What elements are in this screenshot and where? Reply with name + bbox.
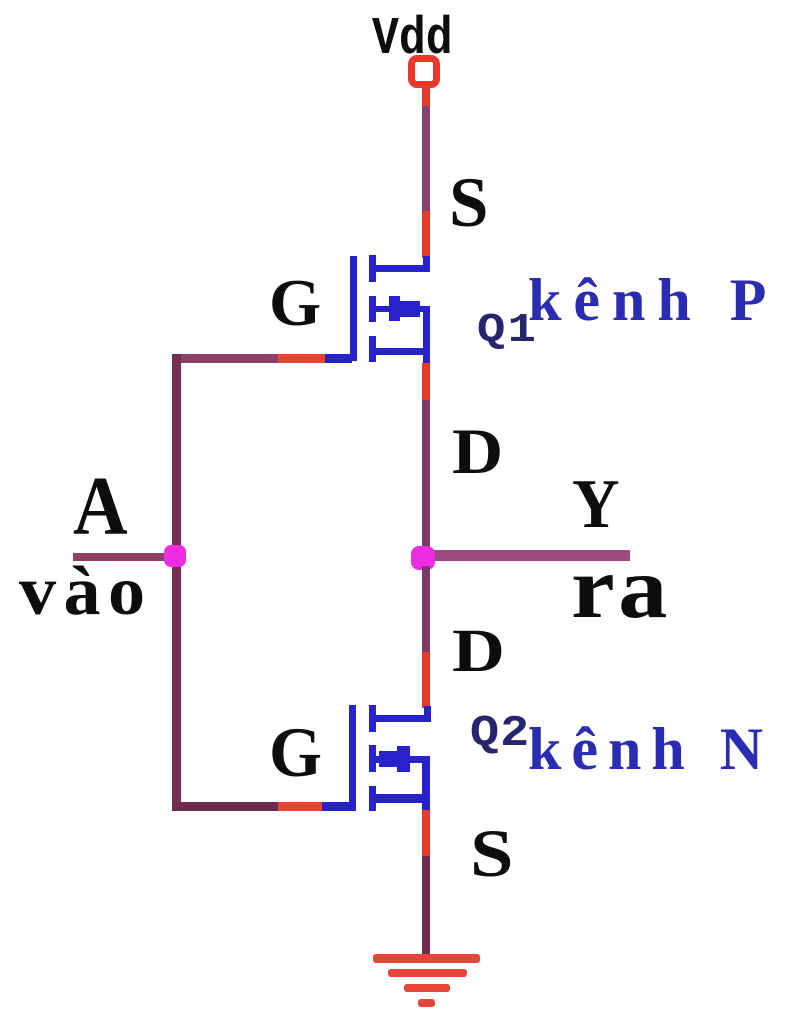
drain contact (372, 348, 429, 355)
label A (73, 465, 128, 549)
label D (Q1 drain) (452, 420, 503, 485)
channel bars (369, 255, 376, 282)
source contact (372, 265, 429, 272)
label Q2 (470, 712, 530, 756)
transistor Q1 (PMOS) (0, 0, 1, 1)
wire Q2 source red (422, 810, 430, 858)
channel bars (369, 705, 376, 732)
transistor Q2 (NMOS) (0, 0, 1, 1)
label S (Q1 source) (449, 168, 489, 239)
wire Vdd stem red (422, 87, 430, 108)
ground (0, 0, 1, 1)
label Y (572, 470, 620, 540)
gate wire bottom horizontal (173, 802, 278, 811)
label Q1 (477, 311, 538, 352)
power terminal Vdd (408, 55, 440, 88)
gate wire left vertical (172, 354, 181, 811)
gate plate (350, 256, 357, 361)
wire Q1 drain to node purple (422, 400, 430, 548)
label S (Q2 source) (470, 819, 514, 887)
label G (Q1 gate) (269, 270, 321, 337)
bulk contact with arrow (374, 756, 382, 763)
wire node to Q2 purple (422, 566, 430, 654)
label G (Q2 gate) (269, 718, 322, 789)
wire to Q1 source red (422, 211, 430, 258)
input wire A (73, 553, 176, 561)
wire Vdd purple (422, 106, 430, 213)
label ra (571, 545, 671, 633)
node Y junction dot (411, 546, 435, 570)
output wire Y (426, 550, 630, 561)
source contact (375, 794, 430, 803)
label D (Q2 drain) (452, 621, 505, 682)
gate plate (349, 705, 356, 811)
bulk to drain vertical (423, 306, 430, 355)
wire to ground purple (422, 856, 430, 958)
label vao (19, 557, 153, 627)
label Vdd (372, 13, 453, 66)
gate wire top horizontal (173, 354, 278, 363)
label kenh P (528, 270, 778, 330)
label kenh N (528, 719, 773, 779)
bulk to source vertical (422, 756, 430, 803)
bulk contact with arrow (374, 306, 392, 312)
wire Q1 drain red (422, 363, 430, 402)
drain contact (375, 715, 431, 722)
node A junction dot (164, 545, 186, 567)
wire to Q2 drain red (422, 652, 430, 708)
